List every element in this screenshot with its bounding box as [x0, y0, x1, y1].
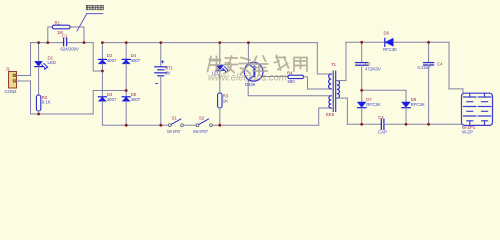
battery BT1	[155, 43, 174, 126]
svg-text:R4: R4	[287, 70, 293, 75]
wire top rail left of C1	[31, 42, 64, 44]
svg-text:SW-SPST: SW-SPST	[167, 129, 181, 134]
wire node B to D8	[125, 91, 127, 97]
capacitor C3	[378, 115, 387, 135]
svg-text:C1: C1	[62, 33, 68, 38]
svg-text:S1: S1	[172, 115, 178, 120]
capacitor C2	[356, 42, 381, 90]
wire bottom middle rail	[102, 124, 169, 126]
svg-text:4007: 4007	[131, 58, 141, 63]
wire right bottom rail left part	[347, 123, 381, 125]
svg-text:C4: C4	[437, 62, 443, 67]
wire right top rail	[346, 41, 385, 43]
svg-text:624/200V: 624/200V	[61, 47, 80, 52]
LED D1	[35, 43, 56, 95]
LED D5	[212, 43, 231, 93]
svg-text:www.elecfans.com: www.elecfans.com	[208, 72, 287, 84]
resistor R3	[218, 93, 229, 125]
wire right bottom rail right part	[384, 123, 462, 125]
svg-text:J1: J1	[6, 67, 11, 72]
transistor Q1	[244, 43, 288, 96]
wire emitter to winding B top	[248, 95, 331, 97]
svg-text:W-ZP: W-ZP	[462, 130, 473, 135]
svg-text:R1: R1	[55, 21, 61, 26]
diode D6	[383, 30, 449, 52]
svg-text:4007: 4007	[107, 97, 117, 102]
wire left vertical upper	[30, 43, 32, 76]
svg-text:CON2: CON2	[5, 89, 18, 94]
wire top rail bridge to transformer	[102, 42, 317, 44]
capacitor C4	[418, 42, 444, 124]
wire AC2 riser	[93, 91, 126, 115]
wire J1 pin1 stub	[17, 75, 31, 77]
diode D9	[402, 97, 425, 124]
resistor R2	[36, 95, 50, 114]
svg-text:4007: 4007	[131, 97, 141, 102]
svg-text:RFC3K: RFC3K	[411, 102, 425, 107]
svg-text:CAP: CAP	[378, 129, 387, 134]
wire left vertical lower	[30, 81, 32, 114]
svg-text:D6: D6	[384, 30, 390, 35]
watermark	[208, 56, 308, 84]
capacitor C1	[61, 33, 80, 51]
switch S2	[193, 115, 212, 133]
battery pack W-ZP	[462, 93, 493, 134]
connector J1	[5, 67, 18, 95]
svg-text:472/63V: 472/63V	[365, 66, 381, 71]
svg-text:0.22uF: 0.22uF	[418, 65, 432, 70]
diode D7	[358, 90, 381, 124]
callout label 降压电路	[77, 5, 103, 31]
wire node A to D3	[101, 71, 103, 97]
diode D8	[122, 92, 141, 125]
wire AC1 drop	[93, 43, 102, 71]
svg-text:9.1K: 9.1K	[42, 100, 51, 105]
transformer T1	[317, 42, 347, 125]
svg-text:EE5: EE5	[326, 112, 335, 117]
svg-text:3V: 3V	[165, 70, 170, 75]
diode D4	[122, 43, 141, 91]
svg-text:S2: S2	[199, 115, 205, 120]
wire top rail C1 to corner	[67, 42, 94, 44]
wire C2 node to D9	[362, 90, 406, 102]
wire between switches	[184, 124, 196, 126]
svg-text:1K: 1K	[223, 98, 228, 103]
svg-text:4007: 4007	[107, 58, 117, 63]
diode D2	[98, 43, 117, 71]
wire right rail corner to pack	[449, 42, 463, 93]
svg-text:C3: C3	[378, 115, 384, 120]
wire J1 pin2 stub	[17, 80, 31, 82]
resistor R1	[48, 21, 84, 43]
svg-text:RFC3K: RFC3K	[366, 102, 380, 107]
svg-text:LED: LED	[48, 60, 56, 65]
svg-text:T1: T1	[331, 62, 337, 67]
wire bottom-left rail	[31, 113, 94, 115]
wire bottom rail after S2	[213, 124, 319, 126]
diode D3	[98, 92, 117, 125]
svg-text:SW-SPST: SW-SPST	[193, 129, 208, 134]
svg-text:680: 680	[288, 79, 296, 84]
switch S1	[167, 115, 183, 133]
resistor R4	[287, 70, 331, 89]
svg-text:RFC3K: RFC3K	[383, 47, 397, 52]
